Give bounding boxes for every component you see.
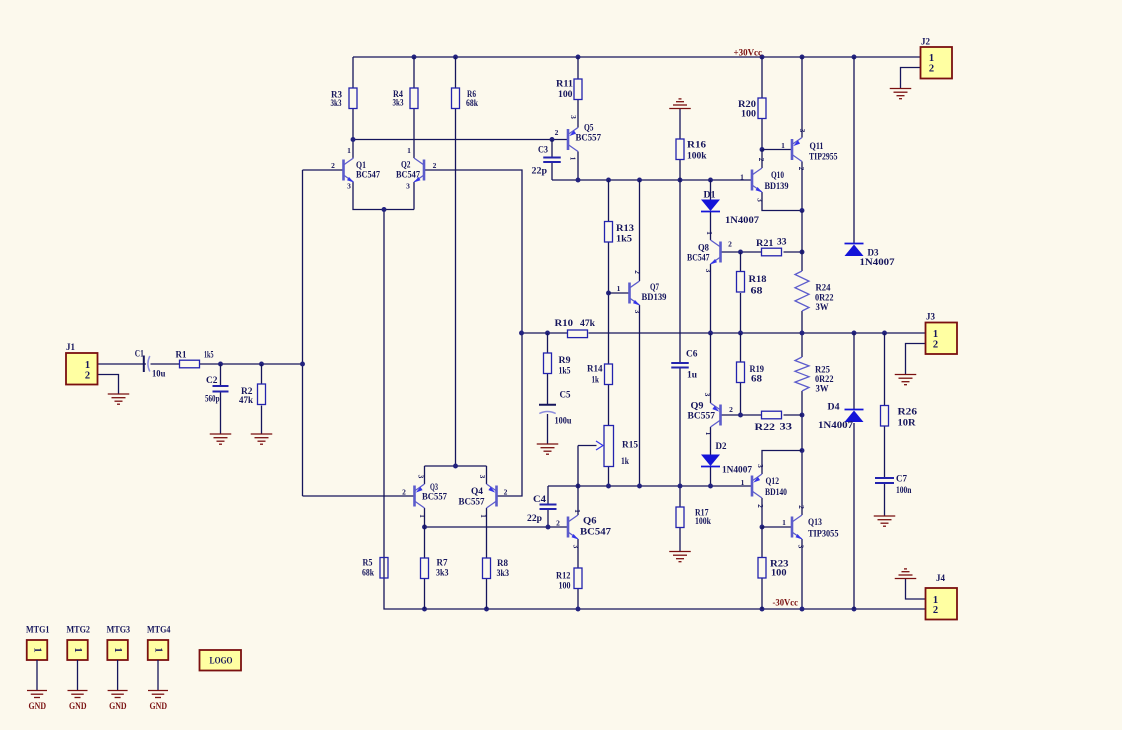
- svg-text:2: 2: [729, 405, 733, 414]
- svg-text:TIP3055: TIP3055: [808, 529, 839, 539]
- svg-text:10R: 10R: [898, 418, 917, 428]
- wire R13 column: [608, 180, 610, 364]
- svg-text:3: 3: [417, 475, 426, 479]
- svg-text:1: 1: [933, 329, 938, 340]
- ground R2: [251, 434, 273, 444]
- diode D3: [845, 244, 896, 268]
- resistor R20: [738, 98, 766, 119]
- wire R16 bottom stub: [679, 160, 681, 180]
- junction dots bottom rail: [422, 607, 856, 612]
- svg-text:100u: 100u: [555, 416, 572, 426]
- svg-text:3: 3: [704, 269, 713, 273]
- ground C5: [537, 444, 559, 454]
- mounting hole MTG1 with ground: [26, 625, 50, 712]
- svg-text:C3: C3: [538, 145, 548, 155]
- svg-text:100: 100: [558, 89, 573, 99]
- svg-text:2: 2: [504, 488, 508, 497]
- svg-text:BD139: BD139: [642, 292, 667, 302]
- junction dot R20/Q10/Q11: [760, 147, 765, 152]
- wire D2 bottom stub: [710, 467, 712, 487]
- svg-text:1k5: 1k5: [559, 366, 571, 376]
- svg-text:1: 1: [72, 647, 83, 652]
- svg-text:47k: 47k: [580, 318, 595, 328]
- wire Q3 base: [303, 495, 415, 497]
- transistor Q6 (BC547 NPN): [556, 509, 611, 549]
- svg-text:2: 2: [933, 605, 938, 616]
- svg-text:1N4007: 1N4007: [725, 215, 760, 225]
- svg-text:BC557: BC557: [576, 133, 602, 143]
- junction dots Q8 base node: [738, 250, 804, 255]
- wire J3 pin2 to ground: [906, 344, 926, 375]
- svg-text:3: 3: [756, 198, 765, 202]
- resistor R14: [587, 364, 613, 385]
- svg-text:1k: 1k: [621, 456, 629, 466]
- svg-text:1k5: 1k5: [616, 234, 633, 244]
- svg-text:2: 2: [402, 488, 406, 497]
- wire Q13 base: [762, 526, 792, 528]
- wire Q1 base: [303, 169, 344, 171]
- svg-text:BC557: BC557: [422, 492, 447, 502]
- junction dot x802 y210: [800, 208, 805, 213]
- svg-text:3: 3: [478, 475, 487, 479]
- wire R8 bottom stub: [486, 579, 488, 610]
- wire C6 column: [679, 180, 681, 486]
- svg-text:R25: R25: [815, 365, 830, 375]
- wire R9 C5 column: [547, 333, 549, 444]
- svg-text:Q4: Q4: [471, 486, 484, 496]
- wire Q3 pins stubs: [424, 466, 426, 558]
- resistor R3: [331, 88, 358, 109]
- capacitor C2: [205, 375, 229, 404]
- junction dots input node: [218, 362, 305, 367]
- svg-text:3k3: 3k3: [497, 568, 510, 578]
- junction dots y486 rail: [576, 484, 713, 489]
- wire R12 bottom stub: [577, 589, 579, 610]
- wire +30V top rail: [353, 56, 921, 58]
- svg-text:Q7: Q7: [650, 282, 659, 292]
- svg-text:1: 1: [32, 647, 43, 652]
- svg-text:2: 2: [331, 161, 335, 170]
- wire R15 bottom stub: [608, 467, 610, 487]
- svg-text:+30Vcc: +30Vcc: [734, 48, 763, 58]
- wire lower rail y486: [548, 485, 752, 487]
- connector J3: [926, 312, 958, 355]
- svg-text:1: 1: [569, 157, 578, 161]
- svg-text:Q8: Q8: [698, 243, 709, 253]
- svg-text:1: 1: [705, 231, 714, 235]
- wire R7 bottom stub: [424, 579, 426, 610]
- capacitor C7: [875, 474, 912, 496]
- svg-text:2: 2: [728, 240, 732, 249]
- svg-text:R19: R19: [750, 364, 765, 374]
- ground C2: [210, 434, 232, 444]
- svg-text:R12: R12: [556, 571, 571, 581]
- svg-text:100: 100: [559, 581, 571, 591]
- svg-text:MTG1: MTG1: [26, 625, 50, 635]
- svg-text:1: 1: [781, 141, 785, 150]
- svg-text:3: 3: [572, 545, 581, 549]
- svg-text:BD140: BD140: [765, 487, 787, 497]
- wire J1 pin2 to ground: [98, 375, 119, 394]
- mounting hole MTG4 with ground: [147, 625, 171, 712]
- wire Q4 pins stubs: [486, 466, 488, 558]
- wire Q9 base to R22: [721, 414, 803, 416]
- mounting hole MTG3 with ground: [107, 625, 131, 712]
- diode D2: [701, 441, 753, 475]
- wire J4 pin1 to ground: [906, 579, 926, 600]
- wire Q9 collector to D2: [710, 427, 712, 455]
- wire R2 column: [261, 364, 263, 434]
- junction dot Q12/Q13/R23: [760, 525, 765, 530]
- wire R18 column: [740, 252, 742, 333]
- svg-text:GND: GND: [150, 701, 168, 711]
- svg-text:Q5: Q5: [584, 123, 594, 133]
- svg-text:1: 1: [782, 518, 786, 527]
- svg-text:Q6: Q6: [583, 516, 597, 526]
- wire R14 to R15: [608, 385, 610, 426]
- svg-text:J2: J2: [921, 37, 931, 47]
- svg-text:R11: R11: [556, 79, 574, 89]
- svg-text:3k3: 3k3: [436, 568, 449, 578]
- svg-text:1: 1: [479, 514, 488, 518]
- svg-text:3: 3: [798, 129, 807, 133]
- wire Q11 base: [762, 149, 792, 151]
- svg-text:68: 68: [751, 374, 763, 384]
- svg-text:2: 2: [797, 505, 806, 509]
- svg-text:2: 2: [633, 270, 642, 274]
- svg-text:MTG3: MTG3: [107, 625, 131, 635]
- wire R16 ground stub: [679, 109, 681, 140]
- svg-text:3: 3: [347, 182, 351, 191]
- svg-text:LOGO: LOGO: [210, 656, 233, 666]
- ground C7: [874, 516, 896, 526]
- svg-text:J4: J4: [936, 573, 946, 583]
- svg-text:BC547: BC547: [356, 170, 380, 180]
- svg-text:2: 2: [85, 370, 90, 381]
- svg-text:R1: R1: [176, 350, 187, 360]
- svg-text:1: 1: [617, 284, 621, 293]
- svg-text:R24: R24: [816, 283, 831, 293]
- wire x802 R24 to rail: [801, 311, 803, 357]
- svg-text:R26: R26: [898, 407, 918, 417]
- svg-text:J3: J3: [926, 312, 936, 322]
- svg-text:3W: 3W: [816, 302, 829, 312]
- wire input column x302: [302, 170, 304, 496]
- wire D4 column: [853, 333, 855, 609]
- wire R6 column to Q3/Q4 emitters: [455, 57, 457, 466]
- transistor Q1 (BC547 NPN): [331, 146, 380, 191]
- svg-text:C7: C7: [896, 474, 907, 484]
- wire input from J1: [98, 363, 303, 365]
- svg-text:-30Vcc: -30Vcc: [773, 598, 799, 608]
- wire Q6 emitter to R12: [577, 539, 579, 568]
- svg-text:J1: J1: [66, 342, 76, 352]
- svg-text:R21: R21: [756, 238, 774, 248]
- svg-text:1: 1: [407, 146, 411, 155]
- svg-text:Q10: Q10: [771, 170, 784, 180]
- wire D3 column upper: [853, 57, 855, 244]
- svg-text:C4: C4: [533, 494, 547, 504]
- svg-text:3: 3: [703, 393, 712, 397]
- svg-text:10u: 10u: [152, 369, 165, 379]
- svg-text:GND: GND: [109, 701, 127, 711]
- svg-text:R8: R8: [497, 558, 508, 568]
- wire Q3 collector rail y527: [425, 526, 569, 528]
- svg-text:R14: R14: [587, 364, 603, 374]
- svg-text:R18: R18: [749, 274, 768, 284]
- resistor R7: [421, 558, 449, 579]
- svg-text:1: 1: [929, 53, 934, 64]
- wire Q10 emitter to Q11 collector: [762, 162, 802, 211]
- svg-text:68: 68: [751, 286, 764, 296]
- svg-text:2: 2: [555, 128, 559, 137]
- svg-text:3: 3: [756, 464, 765, 468]
- connector J2: [921, 37, 953, 79]
- svg-text:Q9: Q9: [691, 401, 705, 411]
- junction dot Q7 base: [606, 291, 611, 296]
- svg-text:R16: R16: [687, 140, 707, 150]
- resistor R25: [795, 357, 834, 394]
- resistor R24: [795, 271, 834, 312]
- mounting hole MTG2 with ground: [67, 625, 91, 712]
- transistor Q7 (BD139 NPN): [617, 270, 667, 314]
- potentiometer R15: [596, 426, 639, 467]
- wire VAS rail y180: [552, 179, 752, 181]
- svg-text:2: 2: [933, 339, 938, 350]
- svg-text:R15: R15: [622, 440, 639, 450]
- junction dot emitters Q1 Q2: [382, 207, 387, 212]
- ground R16 (inverted): [669, 99, 691, 109]
- svg-text:R9: R9: [559, 355, 572, 365]
- wire Q10 collector stub: [761, 150, 763, 169]
- capacitor C5: [539, 390, 572, 426]
- svg-text:R13: R13: [616, 223, 635, 233]
- LOGO block: [200, 650, 242, 671]
- wire R4 / Q2 collector column: [413, 57, 415, 158]
- svg-text:100: 100: [741, 109, 757, 119]
- svg-text:1: 1: [347, 146, 351, 155]
- connector J1: [66, 342, 98, 385]
- junction dot Q9 base node: [738, 413, 743, 418]
- diode D1: [701, 190, 760, 226]
- wire Q12 emitter to node: [761, 498, 763, 527]
- svg-text:Q1: Q1: [356, 160, 366, 170]
- junction dots y180 rail: [576, 178, 713, 183]
- svg-text:C1: C1: [135, 349, 144, 359]
- svg-text:1: 1: [704, 432, 713, 436]
- svg-text:0R22: 0R22: [815, 374, 834, 384]
- svg-text:3W: 3W: [816, 384, 829, 394]
- svg-text:GND: GND: [69, 701, 87, 711]
- transistor Q8 (BC547 NPN): [687, 231, 732, 273]
- wire Q8 emitter to mid rail: [710, 264, 712, 333]
- capacitor C3: [532, 145, 561, 176]
- svg-text:D3: D3: [868, 248, 879, 258]
- junction dots mid rail: [519, 331, 887, 336]
- wire R15 wiper to Q6 collector: [578, 446, 597, 487]
- svg-text:68k: 68k: [362, 568, 374, 578]
- svg-text:D1: D1: [704, 190, 717, 200]
- resistor R8: [483, 558, 510, 579]
- svg-text:R5: R5: [363, 558, 373, 568]
- resistor R23: [758, 558, 789, 579]
- wire Q6 collector stub: [577, 486, 579, 515]
- net label -30Vcc: [773, 598, 799, 608]
- svg-text:BC557: BC557: [688, 411, 716, 421]
- junction dot emitter bridge: [453, 464, 458, 469]
- wire R3 to Q1 collector and base rail y139: [353, 109, 568, 159]
- wire Q2 base feedback loop: [424, 170, 522, 496]
- resistor R26: [881, 406, 918, 428]
- wire R26 C7 column: [884, 333, 886, 516]
- resistor R2: [239, 384, 266, 405]
- svg-text:100k: 100k: [687, 151, 707, 161]
- svg-text:C2: C2: [206, 375, 218, 385]
- svg-text:2: 2: [556, 519, 560, 528]
- svg-text:MTG4: MTG4: [147, 625, 171, 635]
- svg-text:1N4007: 1N4007: [860, 257, 896, 267]
- svg-text:BC557: BC557: [459, 497, 485, 507]
- svg-text:D4: D4: [828, 402, 841, 412]
- transistor Q13 (TIP3055 NPN): [782, 505, 839, 549]
- svg-text:1: 1: [112, 647, 123, 652]
- svg-text:3: 3: [569, 115, 578, 119]
- ground J1: [108, 394, 130, 404]
- resistor R11: [556, 79, 582, 100]
- svg-text:33: 33: [780, 422, 793, 432]
- junction dots x802: [800, 413, 805, 453]
- wire Q8 base to R21: [721, 251, 803, 253]
- diode D4: [818, 402, 864, 431]
- svg-text:1: 1: [85, 360, 90, 371]
- svg-text:1: 1: [153, 647, 164, 652]
- svg-text:C6: C6: [686, 349, 698, 359]
- ground J4 (inverted): [895, 569, 917, 579]
- transistor Q10 (BD139 NPN): [740, 158, 789, 203]
- wire C4 hookup: [547, 486, 549, 527]
- svg-text:1: 1: [418, 514, 427, 518]
- svg-text:2: 2: [929, 63, 934, 74]
- svg-text:R22: R22: [755, 422, 776, 432]
- svg-text:BD139: BD139: [765, 181, 789, 191]
- capacitor C6: [671, 349, 698, 380]
- svg-text:R20: R20: [738, 99, 757, 109]
- wire Q7 base: [609, 292, 630, 294]
- svg-text:3: 3: [633, 310, 642, 314]
- svg-text:33: 33: [777, 237, 787, 247]
- wire R3 top stub: [352, 57, 354, 88]
- wire x802 driver column upper: [801, 211, 803, 272]
- svg-text:100: 100: [771, 568, 787, 578]
- wire C2 column: [220, 364, 222, 434]
- resistor R5: [362, 558, 388, 579]
- wire R11 top stub: [577, 57, 579, 79]
- svg-text:C5: C5: [560, 390, 571, 400]
- resistor R17: [676, 507, 711, 528]
- transistor Q9 (BC557 PNP): [688, 393, 734, 436]
- wire Q1/Q2 emitters to R5: [353, 182, 414, 558]
- wire Q12 collector: [762, 451, 802, 475]
- wire J2 pin2 to ground: [901, 68, 921, 89]
- wire Q7 emitter stub: [639, 305, 641, 486]
- svg-text:1u: 1u: [687, 370, 697, 380]
- svg-text:BC547: BC547: [396, 170, 420, 180]
- svg-text:R10: R10: [555, 318, 574, 328]
- wire -30V bottom rail: [384, 558, 926, 610]
- ground J2: [890, 89, 912, 99]
- svg-text:100n: 100n: [896, 485, 912, 495]
- junction dots y527 rail: [422, 525, 550, 530]
- resistor R1: [176, 350, 214, 368]
- wire Q7 collector stub: [639, 180, 641, 281]
- connector J4: [926, 573, 958, 620]
- svg-text:Q12: Q12: [766, 476, 780, 486]
- svg-text:TIP2955: TIP2955: [809, 152, 838, 162]
- junction dots on +30V rail: [412, 55, 857, 60]
- wire Q5 collector stub: [577, 152, 579, 181]
- resistor R9: [544, 353, 572, 376]
- net label +30Vcc: [734, 48, 763, 58]
- svg-text:47k: 47k: [239, 395, 253, 405]
- svg-text:1: 1: [741, 478, 745, 487]
- svg-text:1N4007: 1N4007: [818, 420, 854, 430]
- svg-text:22p: 22p: [532, 166, 548, 176]
- resistor R22: [755, 411, 793, 432]
- svg-text:2: 2: [797, 167, 806, 171]
- svg-text:BC547: BC547: [580, 527, 612, 537]
- wire output mid rail y333: [522, 332, 926, 334]
- svg-text:Q3: Q3: [430, 482, 438, 492]
- svg-text:100k: 100k: [695, 516, 711, 526]
- wire Q13 emitter to -30V rail: [801, 539, 803, 609]
- svg-text:2: 2: [756, 504, 765, 508]
- wire R19 column: [740, 333, 742, 415]
- junction dots y139 rail: [351, 137, 555, 142]
- resistor R19: [737, 362, 765, 384]
- transistor Q5 (BC557 PNP): [555, 115, 602, 161]
- resistor R12: [556, 568, 582, 591]
- capacitor C4: [527, 494, 557, 523]
- svg-text:R7: R7: [437, 558, 448, 568]
- resistor R13: [605, 222, 635, 244]
- svg-text:GND: GND: [29, 701, 47, 711]
- svg-text:1k5: 1k5: [204, 350, 214, 360]
- svg-text:3: 3: [797, 545, 806, 549]
- resistor R4: [393, 88, 419, 109]
- svg-text:560p: 560p: [205, 394, 220, 404]
- svg-text:2: 2: [757, 158, 766, 162]
- svg-text:BC547: BC547: [687, 253, 710, 263]
- ground R17: [669, 552, 691, 562]
- svg-text:68k: 68k: [466, 98, 478, 108]
- svg-text:3k3: 3k3: [393, 98, 404, 108]
- svg-text:Q2: Q2: [401, 160, 411, 170]
- svg-text:1: 1: [573, 509, 582, 513]
- svg-text:MTG2: MTG2: [67, 625, 91, 635]
- svg-text:3: 3: [406, 182, 410, 191]
- ground J3: [895, 375, 917, 385]
- svg-text:0R22: 0R22: [815, 293, 834, 303]
- resistor R6: [452, 88, 479, 109]
- svg-text:1: 1: [740, 173, 744, 182]
- wire Q11 emitter to +30V: [801, 57, 803, 138]
- wire x802 R25 to Q13: [801, 391, 803, 515]
- resistor R18: [737, 272, 768, 296]
- wire Q3 emitter bridge: [425, 465, 487, 467]
- transistor Q4 (BC557 PNP): [459, 475, 508, 519]
- transistor Q3 (BC557 PNP): [402, 475, 447, 519]
- wire Q9 emitter stub: [710, 333, 712, 403]
